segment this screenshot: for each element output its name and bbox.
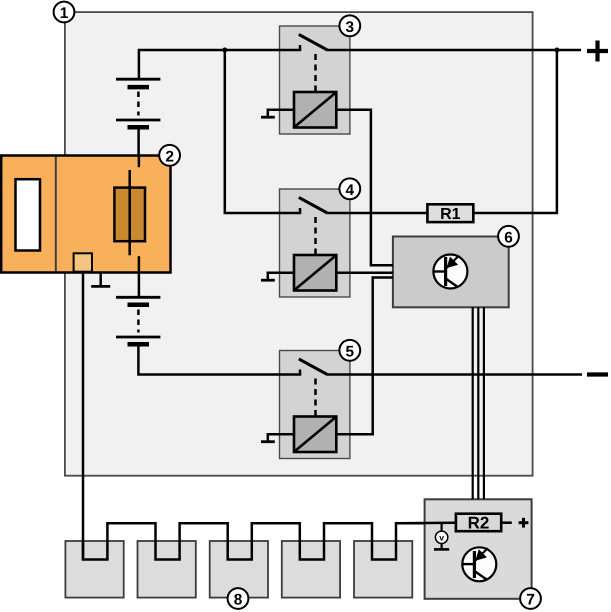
control unit box 2 (orange) — [1, 156, 170, 273]
relay K2 coil diagonal — [295, 256, 335, 290]
plus terminal — [587, 41, 608, 62]
callout circle 7 — [520, 588, 541, 609]
relay K1 coil diagonal — [295, 93, 335, 127]
callout circle 2 — [159, 145, 180, 166]
enclosure box 1 (system boundary) — [65, 12, 533, 476]
wire: control unit to cell string — [82, 273, 85, 560]
wire: relay K1 coil to monitor box 6 — [336, 110, 393, 265]
node: junction on + bus — [222, 48, 227, 53]
battery B1 (upper battery stack) — [116, 79, 160, 127]
wire: + bus from relay K1 output to + terminal — [327, 49, 581, 52]
callout circle 8 — [228, 588, 249, 609]
cell 2 — [138, 541, 196, 598]
resistor R1 — [427, 204, 473, 222]
callout circle 5 — [339, 340, 360, 361]
wire: R2 to plus label — [501, 521, 512, 524]
display window (white) — [16, 179, 41, 250]
wire: battery B1 bottom to control unit box 2 — [137, 127, 140, 156]
relay K3 coil — [294, 417, 336, 453]
relay K2 actuation dashed link — [314, 217, 317, 254]
ground at control unit — [99, 273, 102, 287]
wire: relay K2 coil to monitor box 6 — [336, 272, 393, 275]
voltmeter ground — [441, 544, 443, 549]
relay K1 switch blade — [299, 34, 328, 50]
monitor unit box 6 — [393, 237, 509, 308]
wire: relay K3 coil to monitor box 6 — [336, 278, 393, 435]
relay K1 ground bar — [261, 116, 275, 119]
callout circle 3 — [339, 15, 360, 36]
wire: R1 to riser up to + bus — [473, 50, 557, 213]
svg-text:1: 1 — [60, 5, 69, 22]
transistor symbol in box 7 — [462, 547, 496, 581]
node: junction on + bus at riser — [554, 48, 559, 53]
wire: from + bus junction down to relay K2 input — [225, 50, 301, 213]
charger box 7 — [425, 499, 532, 599]
svg-text:7: 7 — [526, 592, 535, 609]
relay K3 coil diagonal — [295, 418, 335, 452]
relay K2 ground bar — [261, 279, 275, 282]
cell 1 — [65, 541, 123, 598]
minus terminal — [587, 372, 608, 376]
relay K2 box — [280, 189, 350, 297]
cell 5 — [354, 541, 412, 598]
transistor symbol in box 6 — [433, 255, 467, 289]
relay K3 switch contact tick — [299, 370, 302, 375]
battery B2 (lower battery stack) — [116, 297, 160, 344]
svg-text:3: 3 — [346, 19, 355, 36]
svg-text:2: 2 — [165, 148, 174, 165]
plus label in box 7 — [519, 518, 529, 528]
svg-text:R1: R1 — [440, 206, 461, 223]
fuse F1 body — [114, 188, 145, 242]
callout circle 4 — [339, 178, 360, 199]
wire: - bus from battery B2 to relay K3 input — [138, 344, 301, 374]
divider line in control unit — [55, 157, 57, 272]
callout circle 6 — [498, 226, 519, 247]
relay K3 ground bar — [261, 440, 275, 443]
relay K1 switch contact tick — [299, 45, 302, 50]
relay K3 actuation dashed link — [314, 379, 317, 416]
wire: + bus from battery B1 top to relay K1 input — [139, 50, 301, 79]
relay K2 coil — [294, 255, 336, 291]
relay K1 box — [280, 26, 350, 134]
connector pad on control unit — [74, 253, 92, 271]
relay K3 box — [280, 351, 350, 459]
relay K2 switch blade — [299, 197, 328, 213]
relay K1 coil ground wire — [268, 110, 294, 117]
voltmeter tap wire — [441, 523, 443, 532]
relay K2 coil ground wire — [268, 273, 294, 280]
wire: relay K2 output to resistor R1 — [327, 212, 427, 215]
wire: - bus from relay K3 output to - terminal — [327, 373, 582, 376]
wire: serpentine cell links from cell 1 to charger box 7 — [83, 523, 425, 559]
cell 4 — [282, 541, 340, 598]
cell 3 — [210, 541, 268, 598]
wire: stub above fuse — [138, 156, 141, 168]
callout circle 1 — [54, 2, 75, 23]
wire: below fuse to battery B2 — [138, 256, 141, 297]
svg-text:5: 5 — [346, 343, 355, 360]
relay K1 coil — [294, 92, 336, 128]
voltmeter circle v — [435, 531, 447, 543]
relay K3 coil ground wire — [268, 434, 294, 441]
control bus: three vertical lines box6 to box7 — [473, 307, 484, 499]
svg-text:6: 6 — [504, 229, 513, 246]
relay K3 switch blade — [299, 359, 328, 375]
svg-text:4: 4 — [346, 182, 355, 199]
resistor R2 — [456, 514, 501, 532]
fuse F1 link line — [128, 170, 131, 255]
relay K1 actuation dashed link — [314, 54, 317, 91]
wire: battery string to R2 — [396, 521, 456, 524]
relay K2 switch contact tick — [299, 208, 302, 213]
svg-text:R2: R2 — [468, 514, 490, 533]
svg-text:v: v — [439, 533, 444, 543]
svg-text:8: 8 — [234, 592, 243, 609]
